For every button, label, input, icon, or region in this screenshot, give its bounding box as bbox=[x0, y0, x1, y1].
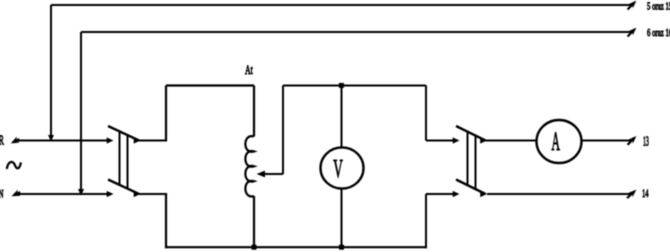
wire: top feeder line 2 bbox=[81, 31, 631, 33]
svg-text:N: N bbox=[0, 188, 4, 201]
wire: N input with left arrow bbox=[10, 189, 21, 199]
switch S2 pole 2 contact arrows bbox=[453, 191, 460, 197]
svg-text:V: V bbox=[333, 156, 343, 184]
wire: tap riser bbox=[282, 86, 284, 175]
wiper tap arrow onto winding bbox=[257, 171, 266, 178]
wire: top feeder line 1 bbox=[51, 4, 631, 6]
wire: voltmeter lower lead bbox=[341, 189, 343, 249]
wire: S1 pole2 to box1 bbox=[139, 193, 167, 195]
svg-text:5 oraz 15: 5 oraz 15 bbox=[647, 0, 670, 12]
wire: right edge of measuring section top bbox=[425, 86, 427, 141]
switch S1 pole 2 blade bbox=[108, 180, 139, 195]
wire: S2 pole1 to ammeter bbox=[486, 140, 538, 142]
switch S2 pole 1 contact arrows bbox=[453, 137, 460, 143]
svg-text:R: R bbox=[0, 133, 4, 148]
wire: vertical drop from line 2 to N wire bbox=[80, 32, 82, 193]
autotransformer winding bbox=[245, 136, 254, 196]
arrow at end of line 2 bbox=[625, 26, 638, 39]
svg-text:14: 14 bbox=[642, 187, 649, 201]
voltmeter V bbox=[321, 147, 364, 188]
switch S2 pole 2 blade bbox=[456, 180, 486, 195]
switch S1 pole 2 contact arrows bbox=[107, 191, 114, 197]
switch S1 pole 1 blade bbox=[108, 126, 139, 141]
wire: to S2 pole1 bbox=[426, 140, 453, 142]
wire: bottom bus bbox=[165, 246, 427, 248]
junction dot at bottom bus under voltmeter bbox=[339, 245, 344, 250]
junction dot at voltmeter top bbox=[339, 83, 344, 88]
wire: vertical drop from line 1 to R wire bbox=[50, 5, 52, 139]
svg-text:At: At bbox=[245, 63, 253, 78]
svg-text:A: A bbox=[552, 128, 561, 156]
down arrow onto R wire bbox=[48, 135, 54, 142]
switch S1 mechanical link bbox=[119, 131, 121, 185]
arrow at end of line 1 bbox=[625, 0, 638, 12]
wire: S1 pole1 to box1 bbox=[139, 140, 167, 142]
wire: top bus of measuring section bbox=[283, 85, 426, 87]
wire: R input with left arrow bbox=[9, 136, 21, 146]
down arrow onto N wire bbox=[78, 189, 84, 196]
wire: to S2 pole2 bbox=[426, 193, 453, 195]
AC tilde symbol bbox=[7, 162, 21, 169]
wire: ammeter to output 13 bbox=[582, 140, 632, 142]
switch S2 mechanical link bbox=[467, 132, 469, 186]
switch S2 pole 1 blade bbox=[456, 126, 486, 141]
junction dot at bottom bus under winding bbox=[252, 245, 257, 250]
ammeter A bbox=[537, 120, 582, 163]
svg-text:13: 13 bbox=[643, 134, 649, 150]
wire: right edge of measuring section bottom bbox=[425, 194, 427, 248]
wire: voltmeter upper lead bbox=[341, 86, 343, 149]
wire: S2 pole2 to output 14 bbox=[487, 193, 631, 195]
svg-text:6 oraz 16: 6 oraz 16 bbox=[647, 27, 670, 39]
switch S1 pole 1 contact arrows bbox=[107, 137, 114, 143]
autotransformer At box outline bbox=[166, 84, 254, 86]
